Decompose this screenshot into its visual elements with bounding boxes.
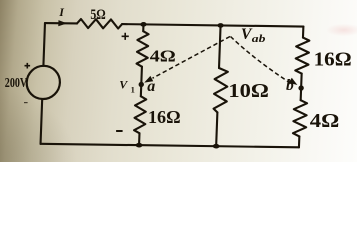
svg-text:4Ω: 4Ω — [150, 46, 176, 65]
svg-text:4Ω: 4Ω — [310, 111, 340, 132]
svg-text:ab: ab — [252, 34, 266, 45]
svg-text:b: b — [286, 77, 294, 94]
svg-text:I: I — [58, 5, 65, 19]
svg-text:1: 1 — [131, 85, 135, 95]
svg-text:16Ω: 16Ω — [148, 107, 181, 127]
svg-text:a: a — [147, 78, 155, 95]
svg-text:5Ω: 5Ω — [90, 7, 106, 23]
svg-text:200V: 200V — [5, 75, 27, 90]
svg-text:16Ω: 16Ω — [314, 48, 352, 70]
svg-text:10Ω: 10Ω — [228, 81, 269, 102]
svg-text:V: V — [119, 77, 128, 91]
